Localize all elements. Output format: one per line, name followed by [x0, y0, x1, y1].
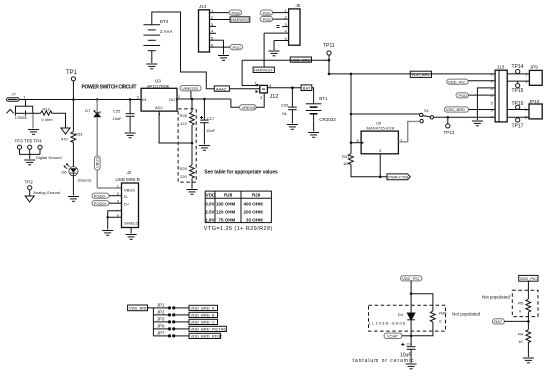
- wire R33 to LED: [72, 143, 74, 167]
- wire R5 to node: [527, 312, 529, 329]
- net label VDD_PIC (pill): [447, 79, 468, 84]
- svg-text:JP7: JP7: [157, 330, 165, 335]
- node TP1 junction: [72, 98, 75, 101]
- svg-text:120 OHM: 120 OHM: [216, 209, 236, 214]
- resistor R4 1K: [518, 330, 531, 344]
- svg-text:123: 123: [180, 121, 187, 126]
- svg-text:BT1: BT1: [319, 96, 328, 101]
- svg-text:R30: R30: [439, 311, 447, 316]
- dashed box R28 R29: [178, 109, 196, 182]
- jumper JP3: [153, 316, 189, 323]
- wire J5 pin5 to ground: [273, 41, 275, 51]
- wire VDD_PIC stem down: [410, 281, 412, 346]
- net label VDD_BRD (bottom left box): [128, 305, 149, 311]
- svg-text:BAT: BAT: [303, 86, 311, 91]
- wire BT4 to AAA2: [152, 12, 215, 89]
- svg-text:JP6: JP6: [157, 323, 165, 328]
- svg-text:100 OHM: 100 OHM: [216, 201, 236, 206]
- svg-text:JP10: JP10: [529, 99, 540, 104]
- svg-text:PGD: PGD: [232, 10, 241, 15]
- wire R31 to PWR-CTRL: [351, 165, 387, 177]
- svg-text:3.0V: 3.0V: [205, 201, 214, 206]
- svg-text:LL103B-GS08: LL103B-GS08: [369, 320, 406, 325]
- connector J2 USB MINI B: [116, 170, 140, 228]
- svg-text:75 OHM: 75 OHM: [219, 217, 236, 222]
- svg-text:400 OHM: 400 OHM: [244, 201, 264, 206]
- ground under BT1: [308, 133, 319, 138]
- wire J13 row7 to JP10 pin2: [507, 116, 529, 118]
- ground under R29: [187, 190, 198, 195]
- net label VDD_BRC (box on rail): [410, 71, 431, 77]
- wire PGD to J13 pin4: [468, 94, 495, 96]
- connector J14: [199, 4, 231, 52]
- ground USB pins45: [102, 231, 113, 236]
- wire USB pins 4,5 tied: [108, 211, 122, 218]
- svg-text:BT4: BT4: [160, 19, 169, 24]
- svg-text:1K: 1K: [518, 339, 523, 344]
- diode D4: [369, 312, 415, 325]
- wire R28 to R29: [191, 125, 193, 165]
- net label VCAP: [384, 333, 402, 338]
- net label PGD (J5 pin2): [260, 17, 272, 22]
- net label AAA2: [214, 86, 229, 91]
- wire PGD0+ to pin3: [109, 202, 122, 204]
- svg-text:0 ohm: 0 ohm: [42, 117, 54, 122]
- svg-text:TP13: TP13: [444, 130, 455, 135]
- dashed box R5: [512, 290, 538, 316]
- svg-text:VDD_PIC: VDD_PIC: [448, 79, 465, 84]
- svg-text:JP9: JP9: [530, 65, 538, 70]
- wire U2 pin3 down: [379, 154, 381, 177]
- svg-text:PGD: PGD: [263, 17, 272, 22]
- net label PGC (J14 pin6): [230, 45, 242, 50]
- wire U2 out to switch (gray): [398, 121, 419, 141]
- resistor R33 470: [61, 132, 83, 143]
- wire shield to ground: [130, 228, 132, 234]
- node VCAP junction: [410, 335, 413, 338]
- svg-text:VDD_BRD: VDD_BRD: [129, 306, 148, 311]
- svg-text:ADJ: ADJ: [155, 105, 163, 110]
- svg-text:VDD_BRD_PICTAIL: VDD_BRD_PICTAIL: [191, 327, 228, 332]
- jumper JP6: [153, 323, 189, 330]
- connector J13: [491, 65, 508, 122]
- capacitor C26 NL: [281, 88, 297, 124]
- diode D7: [85, 108, 102, 117]
- net label PGD0+: [92, 201, 109, 206]
- test point TP17: [512, 117, 524, 129]
- svg-text:VTG=1.25 (1+ R29/R28): VTG=1.25 (1+ R29/R28): [204, 226, 273, 232]
- wire J13 row2 to JP9 pin2: [507, 80, 529, 82]
- svg-text:10uF: 10uF: [206, 128, 216, 133]
- table resistor values: [205, 191, 271, 223]
- net label PGD (J14 pin1): [229, 10, 241, 15]
- svg-text:LS008: LS008: [15, 115, 27, 120]
- wire VREG33 stem: [190, 91, 192, 99]
- battery BT4 2 AAA: [144, 19, 173, 63]
- jumper JP10: [525, 99, 542, 120]
- wire R12 to arrow: [52, 113, 65, 128]
- node VDD_BRC wire junction: [328, 59, 331, 62]
- svg-text:HARVEST: HARVEST: [231, 17, 250, 22]
- svg-text:Analog Ground: Analog Ground: [33, 190, 60, 195]
- resistor R28: [180, 112, 195, 126]
- svg-text:S1: S1: [424, 108, 430, 113]
- svg-text:VREG5: VREG5: [242, 105, 256, 110]
- wire VDD_BRD bus: [148, 308, 154, 336]
- IC U2 MAX4715: [357, 121, 404, 154]
- wire J13 pins 3,5 ground bus: [477, 88, 495, 120]
- capacitor C27 10uF: [200, 99, 216, 145]
- test point TP11: [323, 43, 335, 74]
- wire AAA2 to J12 pin2: [229, 88, 259, 90]
- wire VREG5 to J12 pin3: [256, 93, 264, 107]
- net label PGD0-: [92, 193, 109, 198]
- svg-text:R28: R28: [180, 113, 188, 118]
- node RA7 junction: [527, 320, 530, 323]
- svg-text:OUT: OUT: [169, 97, 178, 102]
- wire TP1 down: [72, 100, 74, 132]
- wire J5 pin4 to J12 pin1 (HARVEST vertical): [263, 33, 265, 67]
- node rail corner: [328, 73, 331, 76]
- node C27 junction: [203, 98, 206, 101]
- svg-text:J13: J13: [497, 65, 505, 70]
- svg-text:33 OHM: 33 OHM: [246, 217, 263, 222]
- svg-text:J5: J5: [296, 3, 301, 8]
- connector J1: [7, 92, 20, 102]
- analog ground under TP2: [25, 196, 34, 202]
- svg-text:470: 470: [61, 137, 68, 142]
- svg-text:(Green): (Green): [78, 178, 92, 183]
- svg-text:TP15: TP15: [512, 88, 524, 94]
- svg-text:Not populated: Not populated: [482, 294, 511, 299]
- svg-text:USB MINI B: USB MINI B: [116, 177, 140, 182]
- svg-text:TP1: TP1: [66, 70, 78, 76]
- svg-text:JP1: JP1: [157, 302, 165, 307]
- ground J14 pin5: [218, 56, 229, 61]
- test point TP14: [512, 64, 524, 74]
- svg-text:VCAP: VCAP: [387, 334, 398, 339]
- jumper JP2: [153, 309, 189, 316]
- wire J12 pin4 to BAT: [267, 87, 301, 89]
- analog ground arrow under R12: [61, 128, 70, 134]
- svg-text:VDD_BRD_C: VDD_BRD_C: [191, 320, 215, 325]
- node R28 junction: [191, 98, 194, 101]
- net label VDD_BRD_RD32: [189, 333, 223, 338]
- svg-text:PGC: PGC: [233, 45, 242, 50]
- wire OUT elbow to VREG5: [231, 99, 240, 107]
- svg-text:TP16: TP16: [512, 101, 524, 107]
- svg-text:tantalum or ceramic: tantalum or ceramic: [353, 358, 415, 364]
- net label VDD_BRD_PICTAIL: [189, 326, 227, 331]
- svg-text:D7: D7: [85, 108, 91, 113]
- svg-text:D+: D+: [124, 202, 130, 207]
- ground under C27: [199, 146, 210, 151]
- wire U3 OUT: [177, 98, 231, 100]
- wire VDD_PIC to J13 pin2: [468, 80, 495, 82]
- svg-text:VDD_PIC: VDD_PIC: [402, 276, 419, 281]
- svg-text:NL: NL: [282, 111, 288, 116]
- wire switch to ground (gray): [32, 113, 34, 128]
- capacitor C25 10uF: [113, 100, 135, 133]
- net label PGC (J5 pin1): [260, 10, 272, 15]
- svg-text:PGC: PGC: [263, 10, 272, 15]
- ground under C4: [406, 364, 417, 369]
- svg-text:2.5V: 2.5V: [205, 209, 214, 214]
- wire J14 pin5 to ground: [223, 40, 225, 54]
- capacitor C4 10uF: [353, 342, 416, 364]
- svg-text:D-: D-: [124, 194, 129, 199]
- wire top right rail: [329, 73, 495, 75]
- wire J13 row1 to JP9 pin1: [507, 73, 529, 75]
- jumper J12: [255, 81, 279, 101]
- jumper JP9: [525, 65, 542, 86]
- wire R4 to ground: [527, 342, 529, 357]
- svg-text:VDD_BRC: VDD_BRC: [291, 57, 310, 62]
- node rail junction at 350.5: [350, 73, 353, 76]
- svg-text:C26: C26: [281, 103, 289, 108]
- svg-text:D4: D4: [398, 312, 404, 317]
- node C26 junction: [291, 86, 294, 89]
- node PWR-CTRL junction: [379, 176, 382, 179]
- regulator U3 AP1117: [137, 79, 182, 117]
- svg-text:R4: R4: [518, 331, 524, 336]
- svg-text:VDD_BRD: VDD_BRD: [446, 107, 465, 112]
- wire VDD_PIC br stem: [527, 281, 529, 299]
- wire BAT to BT1: [312, 88, 314, 104]
- net label VDD_PIC (bottom right box): [519, 275, 538, 281]
- svg-text:R28: R28: [224, 193, 233, 198]
- wire U2 in: [351, 142, 361, 144]
- test points TP3 TP5 TP4: [15, 139, 43, 160]
- svg-text:JP3: JP3: [157, 316, 165, 321]
- ground J13: [472, 121, 483, 126]
- svg-text:220: 220: [180, 174, 187, 179]
- svg-text:VREG33: VREG33: [182, 86, 199, 91]
- svg-text:R5: R5: [518, 301, 524, 306]
- resistor R29: [180, 165, 195, 179]
- node S1 branch: [350, 113, 353, 116]
- node pins45 junction: [107, 216, 109, 218]
- ground under C25: [125, 133, 136, 138]
- svg-text:J14: J14: [199, 4, 207, 9]
- svg-text:TP11: TP11: [323, 43, 335, 49]
- test point TP16: [512, 101, 524, 110]
- LED D6 (Green): [62, 164, 92, 183]
- svg-text:PGD: PGD: [458, 93, 467, 98]
- svg-text:C25: C25: [113, 109, 121, 114]
- svg-text:VDD_BRD_B: VDD_BRD_B: [191, 313, 215, 318]
- net label PGD (J13 pin4): [456, 93, 468, 98]
- svg-text:U3: U3: [155, 79, 161, 84]
- svg-text:VDD: VDD: [206, 193, 216, 198]
- ground under C26: [287, 125, 298, 130]
- wire branch to R30: [411, 294, 433, 311]
- ground under R4: [523, 358, 534, 363]
- svg-text:AAA2: AAA2: [216, 86, 227, 91]
- wire to S1 upper throw: [351, 113, 420, 115]
- ground under BT4: [146, 64, 157, 69]
- battery BT1 CR2032: [306, 96, 337, 132]
- net label VDD_BRC (box): [290, 57, 311, 62]
- wire LED to ground: [72, 174, 74, 196]
- svg-text:C27: C27: [207, 116, 215, 121]
- svg-text:VDD_BRD_RD32: VDD_BRD_RD32: [191, 334, 223, 339]
- svg-text:J2: J2: [127, 170, 132, 175]
- svg-text:SHIELD: SHIELD: [124, 221, 139, 226]
- wire R30 down to VCAP node: [411, 322, 433, 336]
- svg-text:1M: 1M: [343, 161, 349, 166]
- svg-text:R31: R31: [342, 154, 350, 159]
- test point TP1: [66, 70, 78, 100]
- wire VDD_BRC horizontal: [242, 59, 329, 61]
- svg-text:D6: D6: [62, 170, 68, 175]
- resistor R30 0: [430, 311, 447, 324]
- svg-text:R33: R33: [75, 132, 83, 137]
- svg-text:2 AAA: 2 AAA: [160, 29, 173, 34]
- net label HARVEST (J14 pin2): [230, 17, 251, 22]
- svg-text:VBUS: VBUS: [124, 188, 135, 193]
- net label VDD_BRD (pill): [444, 107, 468, 112]
- wire ADJ: [159, 111, 192, 143]
- svg-text:R29: R29: [252, 193, 261, 198]
- svg-text:200 OHM: 200 OHM: [244, 209, 264, 214]
- ground J5 pin5: [269, 51, 280, 56]
- svg-text:CR2032: CR2032: [319, 117, 336, 122]
- svg-text:See table for appropriate valu: See table for appropriate values: [204, 170, 278, 176]
- svg-text:Not populated: Not populated: [452, 312, 481, 317]
- svg-text:C4: C4: [407, 342, 413, 347]
- dashed box D4 R30: [369, 305, 446, 331]
- svg-text:VDD_PIC: VDD_PIC: [520, 276, 537, 281]
- wire main rail VIN: [19, 99, 141, 101]
- wire VDD_BRD to J13 pin6: [469, 109, 496, 111]
- svg-text:VDD_BRD_A: VDD_BRD_A: [191, 306, 215, 311]
- node C25 junction: [129, 98, 132, 101]
- net label RA7: [492, 319, 504, 324]
- svg-text:R12: R12: [43, 107, 51, 112]
- net label VREG5: [240, 105, 257, 110]
- svg-text:TP17: TP17: [512, 124, 524, 130]
- switch S2: [7, 100, 33, 120]
- svg-text:PWR-CTRL: PWR-CTRL: [388, 175, 410, 180]
- test point TP13: [444, 117, 455, 135]
- resistor R31 1M: [342, 154, 353, 167]
- wire S1 common to J13 pin7: [434, 116, 496, 118]
- svg-text:IN: IN: [142, 97, 146, 102]
- wire R29 to ground: [191, 178, 193, 188]
- svg-text:TP3 TP5 TP4: TP3 TP5 TP4: [15, 139, 43, 144]
- wire 350.5 vertical: [350, 74, 352, 154]
- svg-text:POWER SWITCH CIRCUIT: POWER SWITCH CIRCUIT: [82, 85, 137, 91]
- wire RA7 to node: [504, 320, 528, 322]
- ground digital under TP3/5/4: [24, 160, 35, 165]
- svg-text:10uF: 10uF: [113, 116, 123, 121]
- ground under D6: [68, 197, 79, 202]
- net label VDD_BRD_A: [189, 305, 218, 310]
- net label VDD_BRD_B: [189, 312, 218, 317]
- test point TP2: [25, 180, 34, 197]
- test point TP15: [512, 81, 524, 94]
- svg-text:MAX4715-EXK: MAX4715-EXK: [367, 126, 395, 131]
- wire VDD_BRC top: [242, 60, 256, 85]
- svg-text:VDD_BRC: VDD_BRC: [411, 72, 430, 77]
- wire D7 vertical to USB VBUS (gray): [97, 100, 121, 189]
- svg-text:R29: R29: [180, 166, 188, 171]
- resistor R5 0: [518, 299, 531, 314]
- wire VCAP to node: [402, 335, 411, 337]
- net label PWR-CTRL: [387, 174, 410, 180]
- svg-text:1.8V: 1.8V: [205, 217, 214, 222]
- node D7 junction: [96, 98, 99, 101]
- svg-text:TP2: TP2: [25, 180, 34, 185]
- node U2 in branch: [350, 141, 353, 144]
- svg-text:Digital Ground: Digital Ground: [36, 155, 62, 160]
- wire PGD0- to pin2: [109, 195, 122, 197]
- ground under switch: [28, 130, 39, 135]
- svg-text:PGD0-: PGD0-: [94, 193, 107, 198]
- svg-text:VBUS: VBUS: [95, 157, 100, 168]
- net label VDD_BRD_C: [189, 319, 218, 324]
- connector J5: [264, 3, 301, 45]
- node ADJ junction: [191, 142, 194, 145]
- net label VBUS (vertical pill): [95, 156, 101, 170]
- net label HARVEST (J12): [253, 67, 274, 72]
- switch S1: [420, 108, 434, 123]
- svg-text:HARVEST: HARVEST: [254, 68, 273, 73]
- net label VREG33: [180, 86, 201, 91]
- svg-text:J12: J12: [270, 94, 279, 100]
- node TP13 junction: [447, 116, 450, 119]
- wire OUT to R28: [191, 99, 193, 112]
- svg-text:JP2: JP2: [157, 309, 165, 314]
- svg-text:PGD0+: PGD0+: [94, 201, 108, 206]
- net label VDD_PIC (bottom middle pill): [401, 276, 422, 281]
- net label BAT (box): [301, 85, 312, 91]
- wire J13 row6 to JP10 pin1: [507, 109, 529, 111]
- ground USB shield: [126, 235, 137, 240]
- jumper JP7: [153, 330, 189, 337]
- jumper JP1: [153, 302, 189, 309]
- node branch to R30: [410, 292, 413, 295]
- resistor R12 0 ohm: [33, 107, 54, 123]
- svg-text:RA7: RA7: [494, 319, 503, 324]
- wire pins45 to ground: [107, 217, 109, 229]
